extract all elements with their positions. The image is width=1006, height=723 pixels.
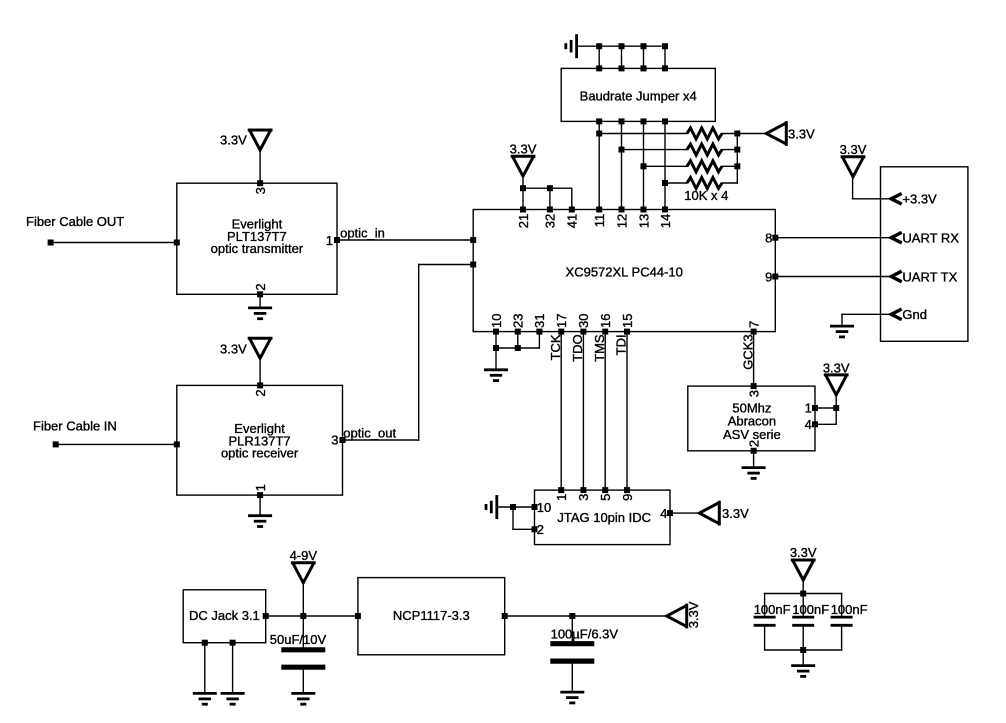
svg-text:2: 2 bbox=[253, 389, 268, 396]
svg-text:Baudrate Jumper x4: Baudrate Jumper x4 bbox=[580, 89, 697, 104]
svg-text:optic_in: optic_in bbox=[340, 226, 385, 241]
svg-text:2: 2 bbox=[537, 522, 544, 537]
svg-text:8: 8 bbox=[765, 231, 772, 246]
svg-text:2: 2 bbox=[253, 283, 268, 290]
svg-text:4: 4 bbox=[660, 506, 667, 521]
svg-text:3: 3 bbox=[253, 187, 268, 194]
svg-text:13: 13 bbox=[636, 214, 651, 228]
svg-text:41: 41 bbox=[565, 214, 580, 228]
svg-text:1: 1 bbox=[554, 494, 569, 501]
svg-text:31: 31 bbox=[532, 314, 547, 328]
svg-text:4-9V: 4-9V bbox=[290, 548, 318, 563]
svg-text:3.3V: 3.3V bbox=[722, 506, 749, 521]
svg-text:optic receiver: optic receiver bbox=[221, 446, 299, 461]
svg-text:TCK: TCK bbox=[548, 334, 563, 360]
svg-text:NCP1117-3.3: NCP1117-3.3 bbox=[393, 608, 470, 623]
svg-text:3.3V: 3.3V bbox=[220, 342, 247, 357]
svg-text:10: 10 bbox=[489, 314, 504, 328]
svg-text:3.3V: 3.3V bbox=[823, 360, 850, 375]
svg-text:UART TX: UART TX bbox=[902, 269, 957, 284]
svg-text:3.3V: 3.3V bbox=[840, 142, 867, 157]
svg-text:3.3V: 3.3V bbox=[686, 601, 701, 628]
svg-text:14: 14 bbox=[658, 214, 673, 228]
svg-text:30: 30 bbox=[576, 314, 591, 328]
svg-text:ASV serie: ASV serie bbox=[723, 427, 781, 442]
svg-text:1: 1 bbox=[326, 233, 333, 248]
svg-text:3.3V: 3.3V bbox=[220, 133, 247, 148]
svg-text:UART RX: UART RX bbox=[902, 231, 959, 246]
svg-text:15: 15 bbox=[620, 314, 635, 328]
svg-text:9: 9 bbox=[620, 494, 635, 501]
svg-text:GCK3: GCK3 bbox=[740, 334, 755, 369]
svg-text:3.3V: 3.3V bbox=[510, 142, 537, 157]
svg-text:1: 1 bbox=[805, 401, 812, 416]
svg-text:9: 9 bbox=[765, 269, 772, 284]
svg-text:12: 12 bbox=[614, 214, 629, 228]
svg-text:3.3V: 3.3V bbox=[788, 126, 815, 141]
svg-text:17: 17 bbox=[554, 314, 569, 328]
svg-text:+3.3V: +3.3V bbox=[902, 192, 937, 207]
svg-text:TDI: TDI bbox=[614, 334, 629, 355]
svg-text:100nF: 100nF bbox=[792, 602, 829, 617]
svg-text:3: 3 bbox=[331, 433, 338, 448]
svg-text:TMS: TMS bbox=[592, 334, 607, 362]
svg-text:21: 21 bbox=[516, 214, 531, 228]
svg-text:100µF/6.3V: 100µF/6.3V bbox=[551, 627, 619, 642]
svg-text:100nF: 100nF bbox=[831, 602, 868, 617]
svg-text:optic_out: optic_out bbox=[343, 425, 396, 440]
svg-text:3: 3 bbox=[746, 390, 761, 397]
svg-text:3.3V: 3.3V bbox=[790, 545, 817, 560]
svg-text:10K x 4: 10K x 4 bbox=[684, 188, 728, 203]
svg-text:5: 5 bbox=[598, 494, 613, 501]
svg-text:DC Jack 3.1: DC Jack 3.1 bbox=[189, 608, 260, 623]
svg-text:1: 1 bbox=[253, 484, 268, 491]
svg-text:32: 32 bbox=[543, 214, 558, 228]
svg-text:2: 2 bbox=[746, 440, 761, 447]
svg-text:23: 23 bbox=[511, 314, 526, 328]
svg-text:Fiber Cable OUT: Fiber Cable OUT bbox=[26, 214, 124, 229]
svg-text:7: 7 bbox=[746, 321, 761, 328]
svg-text:Gnd: Gnd bbox=[902, 307, 927, 322]
svg-text:4: 4 bbox=[805, 417, 812, 432]
svg-text:11: 11 bbox=[592, 214, 607, 228]
svg-text:16: 16 bbox=[598, 314, 613, 328]
svg-text:XC9572XL PC44-10: XC9572XL PC44-10 bbox=[566, 265, 683, 280]
svg-text:100nF: 100nF bbox=[754, 602, 791, 617]
svg-text:TDO: TDO bbox=[570, 334, 585, 361]
svg-text:optic transmitter: optic transmitter bbox=[211, 241, 304, 256]
svg-text:Fiber Cable IN: Fiber Cable IN bbox=[33, 419, 117, 434]
svg-text:10: 10 bbox=[537, 500, 551, 515]
svg-text:50uF/10V: 50uF/10V bbox=[270, 632, 327, 647]
svg-text:3: 3 bbox=[576, 494, 591, 501]
svg-text:JTAG 10pin IDC: JTAG 10pin IDC bbox=[557, 510, 651, 525]
